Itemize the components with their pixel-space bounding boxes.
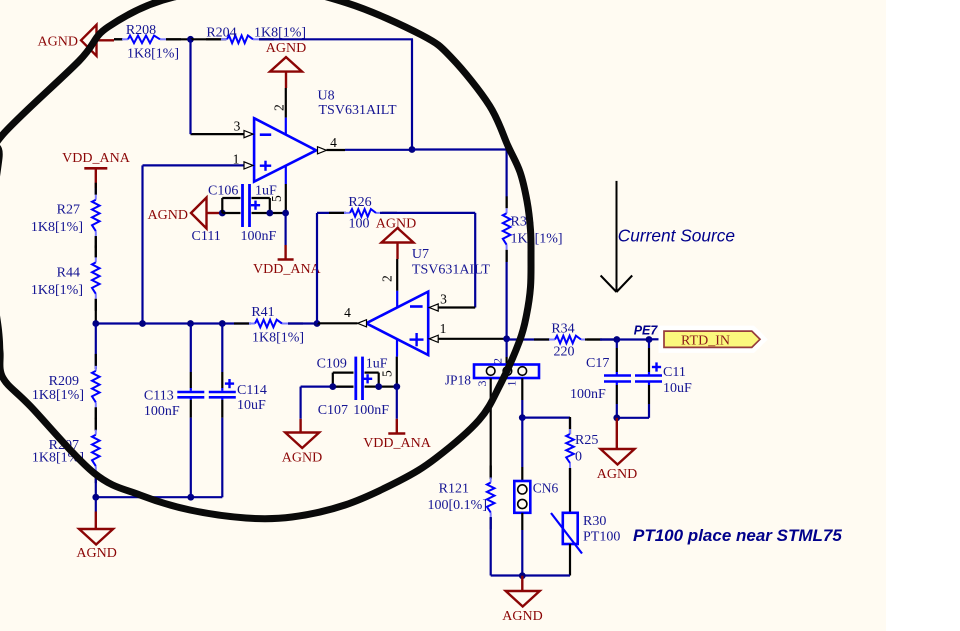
svg-text:VDD_ANA: VDD_ANA — [253, 262, 322, 277]
pin number 1 (U7) — [440, 321, 447, 336]
annotation circle — [0, 0, 531, 519]
wire AGND to U8 pin2 — [285, 88, 287, 118]
svg-text:10uF: 10uF — [237, 398, 266, 413]
svg-text:4: 4 — [330, 135, 337, 150]
power port AGND (below C107) — [282, 387, 322, 466]
svg-text:C113: C113 — [144, 389, 174, 404]
svg-text:1K8[1%]: 1K8[1%] — [252, 331, 304, 346]
label Current Source — [618, 226, 735, 246]
junction bus x190 — [187, 320, 194, 327]
wire main node bus — [96, 322, 251, 324]
svg-text:2: 2 — [272, 104, 287, 111]
power port AGND (above U7 pin2) — [376, 217, 416, 260]
svg-text:R27: R27 — [57, 203, 80, 218]
label R27 — [57, 203, 80, 218]
value 220 (R34) — [554, 345, 575, 360]
svg-text:R44: R44 — [57, 266, 80, 281]
resistor R27 — [92, 183, 100, 248]
svg-text:JP18: JP18 — [445, 373, 472, 388]
junction U7 output node — [314, 320, 321, 327]
junction U8 output node — [409, 146, 416, 153]
wire R26 right — [380, 212, 475, 214]
svg-text:1K8[1%]: 1K8[1%] — [31, 283, 83, 298]
label U7 — [412, 247, 429, 262]
resistor R25 — [566, 417, 574, 480]
pin number 2 (U8) — [272, 104, 287, 111]
pin number 5 (U7) — [380, 370, 395, 377]
wire CN6 to gnd bus — [521, 513, 523, 576]
label R25 — [575, 433, 598, 448]
wire C11 top lead — [648, 340, 650, 376]
junction C17 bottom — [613, 414, 620, 421]
wire AGND to U7 pin2 — [396, 259, 398, 291]
wire R207 to bottom node — [95, 471, 97, 497]
svg-text:100nF: 100nF — [570, 387, 606, 402]
wire U8 pin5 to node — [285, 184, 287, 213]
wire top bus right segment — [259, 38, 413, 40]
label PT100 place near STML75 — [633, 526, 842, 545]
wire C107 main left — [301, 386, 354, 388]
junction pin1-R25 node — [519, 414, 526, 421]
wire R41 to output node — [288, 322, 317, 324]
svg-text:1K8[1%]: 1K8[1%] — [31, 220, 83, 235]
wire R33 bottom — [506, 250, 508, 339]
pin number 3 (U8) — [234, 119, 241, 134]
wire R34 to C17 node — [585, 338, 649, 340]
wire bus to C114 — [221, 324, 223, 391]
label R41 — [251, 305, 274, 320]
svg-text:AGND: AGND — [76, 546, 116, 561]
svg-text:R41: R41 — [251, 305, 274, 320]
label C109 — [317, 357, 347, 372]
value 100 (R26) — [349, 217, 370, 232]
junction C106 right — [266, 210, 273, 217]
wire junction to R204 — [191, 38, 227, 40]
junction bus x222 — [219, 320, 226, 327]
svg-text:C107: C107 — [318, 403, 348, 418]
wire C113 to bottom node — [190, 397, 192, 497]
svg-text:C11: C11 — [663, 365, 686, 380]
junction pin5 node (U7) — [393, 383, 400, 390]
label C107 — [318, 403, 348, 418]
wire CN6 down from node — [521, 418, 523, 481]
wire node to R25 branch — [522, 418, 570, 426]
svg-text:1uF: 1uF — [366, 357, 388, 372]
svg-text:VDD_ANA: VDD_ANA — [62, 151, 131, 166]
svg-text:100nF: 100nF — [144, 404, 180, 419]
svg-text:3: 3 — [475, 381, 489, 387]
wire R44 to bus — [95, 299, 97, 324]
pin 5 stub (U7) — [396, 339, 398, 357]
wire to U8 pin3 horizontal — [191, 133, 245, 135]
svg-text:PE7: PE7 — [634, 324, 659, 338]
svg-text:10uF: 10uF — [663, 381, 692, 396]
wire R209-R207 — [95, 407, 97, 431]
pin number 5 (U8) — [269, 195, 284, 202]
junction C107 left — [329, 383, 336, 390]
resistor R41 — [234, 320, 303, 328]
value 10uF (C11) — [663, 381, 692, 396]
wire U7 pin1 horizontal — [437, 338, 507, 340]
value 100nF (C17) — [570, 387, 606, 402]
svg-text:1K8[1%]: 1K8[1%] — [511, 232, 563, 247]
junction node A (R208/R204/U8 pin3) — [187, 36, 194, 43]
svg-text:R25: R25 — [575, 433, 598, 448]
pin 1 arrowhead (U8) — [244, 162, 253, 169]
value 10uF (C114) — [237, 398, 266, 413]
label R34 — [551, 322, 574, 337]
polarity + (C109) — [363, 374, 372, 383]
label C11 — [663, 365, 686, 380]
label R44 — [57, 266, 80, 281]
wire C109 loop left-up — [333, 373, 354, 387]
power port AGND (above U8 pin2) — [266, 41, 306, 88]
pin 3 arrowhead (U7) — [429, 304, 438, 311]
wire bottom node bus — [96, 496, 223, 498]
wire U8 pin1 vertical — [141, 165, 143, 323]
svg-text:1K8[1%]: 1K8[1%] — [127, 47, 179, 62]
pin 1 arrowhead (U7) — [429, 335, 438, 342]
wire R30 to gnd bus — [569, 544, 571, 576]
wire C17 bottom lead — [616, 382, 618, 418]
junction bottom x96 — [92, 494, 99, 501]
current source arrow — [601, 181, 633, 292]
resistor R207 — [92, 418, 100, 483]
wire C111 right plate lead — [252, 212, 286, 214]
wire R208 to junction — [166, 38, 189, 40]
junction pin5 node — [282, 210, 289, 217]
svg-text:100: 100 — [349, 217, 370, 232]
value 1K8[1%] (R204) — [254, 26, 306, 41]
svg-text:CN6: CN6 — [533, 481, 559, 496]
label C114 — [237, 383, 267, 398]
svg-text:U7: U7 — [412, 247, 429, 262]
label TSV631AILT (U7) — [412, 263, 490, 278]
wire C11 bottom lead — [648, 382, 650, 418]
power port VDD_ANA (below C107 right) — [363, 387, 432, 451]
pin 2 stub (U7) — [396, 291, 398, 308]
pin number 3 (JP18) — [475, 381, 489, 387]
wire bus to R209 — [95, 324, 97, 370]
svg-text:PT100: PT100 — [583, 530, 620, 545]
wire R26 left vertical — [316, 213, 318, 324]
wire U8 output — [327, 149, 413, 151]
svg-text:R26: R26 — [348, 195, 371, 210]
op-amp U7 — [366, 292, 428, 355]
svg-text:C114: C114 — [237, 383, 267, 398]
wire bus to C113 — [190, 324, 192, 391]
wire U8 pin3 vertical from node A — [189, 39, 191, 134]
value PT100 (R30) — [583, 530, 620, 545]
wire feedback vertical right — [411, 39, 413, 149]
svg-text:AGND: AGND — [266, 41, 306, 56]
value 1K8[1%] (R209) — [32, 388, 84, 403]
svg-text:4: 4 — [344, 305, 351, 320]
svg-text:AGND: AGND — [38, 35, 78, 50]
junction bottom x190 — [187, 494, 194, 501]
svg-text:AGND: AGND — [597, 467, 637, 482]
op-amp U8 — [254, 118, 316, 181]
polarity + (C114) — [225, 379, 234, 388]
value 1K8[1%] (R44) — [31, 283, 83, 298]
value 100nF (C107) — [353, 403, 389, 418]
power port VDD_ANA (top of divider) — [62, 151, 131, 188]
svg-text:Current Source: Current Source — [618, 226, 735, 246]
svg-text:220: 220 — [554, 345, 575, 360]
label R209 — [49, 374, 79, 389]
value 1K8[1%] (R41) — [252, 331, 304, 346]
svg-text:C17: C17 — [586, 356, 609, 371]
junction bus x142 — [139, 320, 146, 327]
svg-text:TSV631AILT: TSV631AILT — [412, 263, 490, 278]
label C111 — [192, 229, 221, 244]
wire R25 top lead — [569, 426, 571, 434]
capacitor C17 — [604, 376, 631, 382]
value 1K8[1%] (R207) — [32, 451, 84, 466]
resistor R204 — [206, 36, 274, 44]
svg-text:R34: R34 — [551, 322, 574, 337]
resistor R121 — [487, 466, 495, 530]
value 100nF (C113) — [144, 404, 180, 419]
connector CN6 — [514, 481, 530, 513]
label C106 — [208, 184, 238, 199]
power port AGND (bottom of divider) — [76, 497, 116, 561]
capacitor C106/C111 plates — [243, 184, 250, 227]
value 1K8[1%] (R208) — [127, 47, 179, 62]
svg-text:R204: R204 — [206, 26, 236, 41]
wire top bus left segment — [114, 38, 123, 40]
svg-text:U8: U8 — [318, 89, 335, 104]
wire output node to R33 column — [412, 148, 507, 150]
value 1uF (C109) — [366, 357, 388, 372]
capacitor C113 — [177, 392, 204, 397]
wire pin1 node to R34 — [507, 338, 550, 340]
wire C17 top lead — [616, 340, 618, 376]
wire pin1 node to JP18 pin2 — [506, 340, 508, 365]
label C113 — [144, 389, 174, 404]
pin number 1 (U8) — [233, 152, 240, 167]
wire C111 left plate lead — [222, 212, 240, 214]
polarity + (C11) — [652, 362, 661, 371]
pin number 2 (U7) — [380, 275, 395, 282]
label R208 — [126, 23, 156, 38]
svg-text:PT100 place near STML75: PT100 place near STML75 — [633, 526, 842, 545]
value 1K8[1%] (R27) — [31, 220, 83, 235]
svg-text:1: 1 — [233, 152, 240, 167]
capacitor C11 — [635, 376, 662, 382]
pin number 4 (U7) — [344, 305, 351, 320]
pin 4 output arrowhead (U7) — [358, 320, 367, 327]
resistor R26 — [329, 209, 397, 217]
pin 4 output arrowhead (U8) — [318, 147, 327, 154]
junction C11 top — [646, 336, 653, 343]
wire JP18 pin1 down — [521, 378, 523, 417]
svg-text:C111: C111 — [192, 229, 221, 244]
wire U7 pin5 down — [396, 357, 398, 387]
svg-text:AGND: AGND — [282, 451, 322, 466]
svg-text:0: 0 — [575, 450, 582, 465]
svg-text:100nF: 100nF — [353, 403, 389, 418]
svg-text:3: 3 — [440, 292, 447, 307]
label R30 — [583, 514, 606, 529]
svg-text:AGND: AGND — [502, 609, 542, 624]
svg-text:R121: R121 — [439, 482, 469, 497]
wire VDD to R27 — [95, 188, 97, 194]
svg-text:R209: R209 — [49, 374, 79, 389]
label R33 — [511, 215, 534, 230]
junction U7 pin1 node — [503, 335, 510, 342]
pin 3 arrowhead (U8) — [244, 131, 253, 138]
pin number 2 (JP18) — [491, 358, 505, 364]
value 1K8[1%] (R33) — [511, 232, 563, 247]
svg-text:TSV631AILT: TSV631AILT — [319, 103, 397, 118]
svg-text:2: 2 — [491, 358, 505, 364]
junction bus x96 — [92, 320, 99, 327]
svg-text:3: 3 — [234, 119, 241, 134]
power port VDD_ANA (below C106) — [253, 213, 322, 277]
resistor R33 — [503, 196, 511, 261]
value 100[0.1%] (R121) — [428, 498, 488, 513]
power port AGND (left of C106) — [148, 198, 222, 229]
power port AGND (bottom right) — [502, 576, 542, 624]
wire C106 loop right — [252, 198, 270, 213]
label CN6 — [533, 481, 559, 496]
capacitor C109/C107 plates — [356, 357, 363, 400]
junction gnd bus — [519, 572, 526, 579]
wire C109 loop right — [365, 373, 379, 387]
svg-text:R208: R208 — [126, 23, 156, 38]
label R207 — [49, 438, 79, 453]
label C17 — [586, 356, 609, 371]
label R26 — [348, 195, 371, 210]
svg-text:1K8[1%]: 1K8[1%] — [32, 388, 84, 403]
svg-text:100[0.1%]: 100[0.1%] — [428, 498, 488, 513]
label R204 — [206, 26, 236, 41]
pin 5 stub (U8) — [285, 166, 287, 184]
pin number 4 (U8) — [330, 135, 337, 150]
resistor R34 — [534, 336, 602, 344]
junction C107 right — [375, 383, 382, 390]
power port AGND (top-left arrow) — [38, 25, 114, 56]
junction C106 left — [219, 210, 226, 217]
wire R33 top — [506, 150, 508, 209]
junction C17 top — [613, 336, 620, 343]
label PE7 (net) — [634, 324, 659, 338]
wire R27-R44 — [95, 236, 97, 257]
pin number 3 (U7) — [440, 292, 447, 307]
wire R26 to pin3 vertical — [474, 213, 476, 308]
svg-text:AGND: AGND — [148, 208, 188, 223]
wire to port RTD_IN — [649, 338, 664, 340]
svg-text:100nF: 100nF — [241, 229, 277, 244]
label JP18 — [445, 373, 472, 388]
svg-text:1: 1 — [505, 381, 519, 387]
wire R121 to gnd bus — [490, 517, 492, 576]
wire C17-C11 bottom bus — [617, 417, 649, 419]
wire C106 loop left-up — [222, 198, 240, 213]
svg-text:VDD_ANA: VDD_ANA — [363, 436, 432, 451]
svg-text:RTD_IN: RTD_IN — [681, 333, 730, 348]
svg-text:C109: C109 — [317, 357, 347, 372]
wire C107 main right — [365, 386, 397, 388]
wire C107 plate lead — [333, 386, 354, 388]
connector JP18 — [474, 365, 539, 379]
label U8 — [318, 89, 335, 104]
svg-text:5: 5 — [269, 195, 284, 202]
wire bottom gnd bus — [491, 574, 570, 576]
pin number 1 (JP18) — [505, 381, 519, 387]
svg-text:1: 1 — [440, 321, 447, 336]
wire JP18 pin3 to R121 — [490, 378, 492, 479]
resistor R44 — [92, 245, 100, 310]
wire U7 output — [317, 322, 358, 324]
pin 2 stub (U8) — [285, 118, 287, 135]
svg-text:2: 2 — [380, 275, 395, 282]
value 1uF (C106) — [255, 184, 277, 199]
polarity + (C106) — [251, 201, 260, 210]
power port AGND (below C17) — [597, 418, 637, 482]
resistor R208 — [114, 36, 181, 44]
capacitor C114 — [209, 392, 236, 397]
value 0 (R25) — [575, 450, 582, 465]
wire to U8 pin1 horizontal — [143, 164, 245, 166]
port RTD_IN — [664, 331, 760, 348]
value 100nF (C111) — [241, 229, 277, 244]
wire R25 to R30 — [569, 468, 571, 513]
svg-text:C106: C106 — [208, 184, 238, 199]
wire C114 to bottom node — [221, 397, 223, 497]
resistor R209 — [92, 354, 100, 419]
svg-text:R30: R30 — [583, 514, 606, 529]
label R121 — [439, 482, 469, 497]
wire R26 left — [317, 212, 346, 214]
wire U7 pin3 horizontal — [437, 306, 475, 308]
label TSV631AILT (U8) — [319, 103, 397, 118]
thermistor R30 — [551, 513, 582, 554]
